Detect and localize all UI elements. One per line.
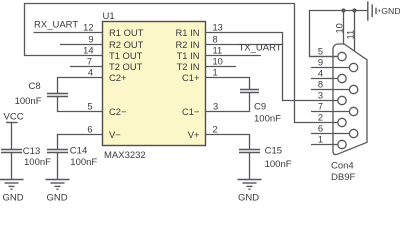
- svg-text:7: 7: [87, 57, 92, 67]
- junction dot pin10: [341, 8, 345, 12]
- wire pin7: [70, 66, 103, 68]
- svg-text:6: 6: [318, 124, 323, 134]
- svg-text:T1 OUT: T1 OUT: [109, 50, 143, 61]
- svg-text:RX_UART: RX_UART: [34, 19, 78, 30]
- svg-text:C9: C9: [254, 101, 266, 112]
- svg-text:VCC: VCC: [4, 112, 24, 123]
- svg-text:C1−: C1−: [182, 106, 200, 117]
- svg-text:2: 2: [318, 113, 323, 123]
- svg-text:C8: C8: [29, 81, 41, 92]
- connector Con4 DB9F outline: [331, 44, 367, 183]
- svg-text:5: 5: [318, 47, 323, 57]
- svg-text:4: 4: [88, 68, 93, 78]
- wire db9 pin4: [311, 78, 338, 80]
- wire T1OUT net: [25, 4, 339, 123]
- svg-text:MAX3232: MAX3232: [104, 150, 146, 161]
- svg-text:2: 2: [213, 125, 218, 135]
- svg-text:DB9F: DB9F: [331, 172, 355, 183]
- svg-text:3: 3: [213, 102, 218, 112]
- wire db9 pin5 stub: [310, 56, 339, 58]
- pin circle 9: [349, 63, 357, 71]
- wire V+ to C15: [206, 135, 250, 150]
- svg-text:11: 11: [345, 30, 355, 40]
- wire C15 to gnd: [249, 153, 251, 180]
- wire V- to C14: [58, 135, 103, 150]
- wire db9 pin6: [311, 133, 350, 135]
- pin circle 3: [338, 96, 346, 104]
- svg-text:5: 5: [87, 102, 92, 112]
- svg-text:C15: C15: [265, 145, 282, 156]
- wire C9 to C1-: [206, 93, 250, 112]
- svg-text:8: 8: [213, 35, 218, 45]
- svg-text:V+: V+: [188, 129, 200, 140]
- svg-text:100nF: 100nF: [70, 157, 97, 168]
- svg-text:C2+: C2+: [109, 72, 127, 83]
- wire C2+ to C8: [58, 78, 103, 94]
- wire VCC to C13: [11, 123, 13, 150]
- ground earth top right: [368, 1, 400, 20]
- capacitor C8: [15, 81, 68, 107]
- svg-text:C14: C14: [70, 145, 87, 156]
- wire pin11: [206, 55, 262, 57]
- wire pin10: [206, 66, 237, 68]
- svg-text:TX_UART: TX_UART: [239, 43, 282, 54]
- svg-text:9: 9: [88, 35, 93, 45]
- pin circle 2: [338, 118, 346, 126]
- svg-text:7: 7: [318, 102, 323, 112]
- wire C13 to gnd: [11, 153, 13, 180]
- junction dot pin11: [352, 8, 356, 12]
- wire db9 pin9: [311, 67, 350, 69]
- node RX_UART: [34, 19, 94, 32]
- capacitor C14: [47, 145, 97, 168]
- svg-text:1: 1: [213, 68, 218, 78]
- svg-text:R1 OUT: R1 OUT: [109, 27, 144, 38]
- svg-text:T2 IN: T2 IN: [177, 61, 200, 72]
- svg-text:R2 OUT: R2 OUT: [109, 39, 144, 50]
- svg-text:Con4: Con4: [331, 161, 354, 172]
- pin circle 6: [349, 129, 357, 137]
- svg-text:C13: C13: [23, 146, 40, 157]
- svg-text:R1 IN: R1 IN: [176, 27, 200, 38]
- capacitor C9: [240, 90, 281, 125]
- svg-text:U1: U1: [103, 11, 115, 22]
- capacitor C13: [1, 146, 51, 168]
- ground C14: [46, 180, 70, 204]
- IC U1 MAX3232: [103, 11, 206, 161]
- svg-text:12: 12: [83, 23, 93, 33]
- svg-text:C2−: C2−: [109, 106, 127, 117]
- wire pin8: [206, 44, 283, 46]
- capacitor C15: [239, 145, 292, 170]
- svg-text:100nF: 100nF: [265, 159, 292, 170]
- wire con pin10: [343, 11, 345, 45]
- wire C1+ to C9: [206, 78, 250, 90]
- svg-text:1: 1: [318, 135, 323, 145]
- wire pin12 RX_UART: [34, 32, 103, 34]
- ground C15: [238, 180, 262, 204]
- wire GND net top right: [310, 11, 368, 57]
- pin circle 4: [338, 74, 346, 82]
- svg-text:4: 4: [318, 69, 323, 79]
- svg-text:GND: GND: [47, 192, 68, 201]
- svg-text:9: 9: [318, 58, 323, 68]
- ground C13: [0, 180, 24, 204]
- svg-text:10: 10: [213, 57, 223, 67]
- svg-text:8: 8: [318, 80, 323, 90]
- svg-text:R2 IN: R2 IN: [176, 39, 200, 50]
- svg-text:GND: GND: [381, 6, 400, 16]
- wire pin9: [60, 44, 103, 46]
- wire con pin11: [354, 11, 356, 52]
- svg-text:100nF: 100nF: [15, 96, 42, 107]
- pin circle 5: [338, 52, 346, 60]
- pin circle 1: [338, 140, 346, 148]
- pin circle 7: [349, 107, 357, 115]
- pin circle 8: [349, 85, 357, 93]
- svg-text:3: 3: [318, 91, 323, 101]
- svg-text:T1 IN: T1 IN: [177, 50, 200, 61]
- svg-text:10: 10: [335, 23, 345, 33]
- wire C14 to gnd: [57, 153, 59, 180]
- svg-text:13: 13: [213, 23, 223, 33]
- wire db9 pin1: [311, 144, 338, 146]
- svg-text:GND: GND: [238, 193, 259, 202]
- svg-text:T2 OUT: T2 OUT: [109, 61, 143, 72]
- svg-text:100nF: 100nF: [24, 157, 51, 168]
- wire db9 pin7: [311, 111, 350, 113]
- svg-text:100nF: 100nF: [254, 113, 281, 124]
- wire C8 to C2-: [58, 97, 103, 112]
- wire R1IN net: [206, 33, 339, 101]
- svg-text:V−: V−: [109, 129, 121, 140]
- svg-text:GND: GND: [3, 192, 24, 201]
- svg-text:6: 6: [87, 125, 92, 135]
- svg-text:14: 14: [83, 46, 93, 56]
- svg-text:C1+: C1+: [182, 72, 200, 83]
- svg-text:11: 11: [213, 46, 223, 56]
- wire db9 pin8: [311, 89, 350, 91]
- power VCC: [4, 112, 24, 123]
